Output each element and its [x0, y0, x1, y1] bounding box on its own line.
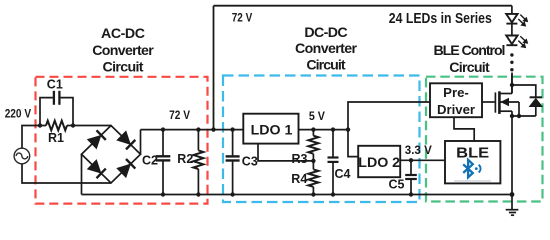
junction dots at R1/C1 [38, 123, 42, 127]
bridge diode D3 (left to bottom) [88, 160, 106, 178]
svg-text:Circuit: Circuit [306, 57, 345, 73]
DC-DC converter block outline (cyan dashed) [223, 76, 420, 203]
wire: pre-driver to BLE [454, 117, 474, 141]
capacitor C3 [226, 130, 240, 195]
AC-DC converter block outline (red dashed) [36, 77, 208, 204]
svg-text:24 LEDs in Series: 24 LEDs in Series [389, 11, 492, 27]
svg-text:R3: R3 [292, 152, 308, 166]
svg-text:C4: C4 [335, 167, 351, 181]
wire: pre-driver gate drive to Q1 [482, 101, 495, 103]
junction dot: 3.3V node at C5 [409, 158, 413, 162]
wire: between LEDs [511, 25, 513, 36]
svg-text:C2: C2 [142, 153, 158, 167]
body diode D5 [512, 85, 542, 116]
svg-text:LDO 1: LDO 1 [251, 122, 293, 138]
wire: top 72V bus [214, 5, 512, 7]
wire: bridge minus corner to ground rail [81, 154, 83, 194]
bridge diode D2 (top to right) [117, 131, 135, 149]
junction dots on ground rail (DC-DC side) [311, 192, 315, 196]
svg-text:72 V: 72 V [169, 108, 191, 122]
wire: 5V rail from LDO1 output [299, 129, 349, 131]
wire: ground rail [82, 194, 513, 196]
svg-text:LDO 2: LDO 2 [358, 155, 400, 171]
svg-text:BLE Control: BLE Control [434, 43, 506, 59]
resistor R1 [46, 121, 67, 131]
bridge diode D4 (bottom to right) [117, 159, 135, 177]
wire: 3.3V rail from LDO2 to BLE [400, 159, 445, 161]
capacitor C5 [405, 160, 417, 194]
svg-text:C5: C5 [389, 177, 405, 191]
wire: 72V riser [213, 6, 215, 130]
svg-text:C3: C3 [242, 154, 258, 168]
wire: LED string feed [511, 6, 513, 14]
junction dot: feedback node between R3 and R4 [311, 159, 315, 163]
svg-text:Converter: Converter [295, 41, 357, 57]
resistor R4 [308, 161, 318, 195]
wire: LED string to Q1 drain [511, 75, 513, 94]
svg-text:R1: R1 [48, 131, 64, 145]
title: DC-DC Converter Circuit [295, 25, 357, 73]
resistor R2 [193, 130, 203, 195]
capacitor C2 [156, 130, 171, 195]
bridge rectifier diamond wires [82, 126, 141, 184]
svg-text:5 V: 5 V [309, 109, 326, 123]
BLE module block U4 [445, 141, 500, 183]
AC source V1 [14, 148, 30, 164]
title: BLE Control Circuit [434, 43, 506, 76]
svg-text:C1: C1 [47, 77, 63, 91]
svg-text:72 V: 72 V [232, 11, 253, 25]
LED D6 [506, 14, 517, 24]
svg-text:Driver: Driver [437, 102, 475, 117]
svg-text:Converter: Converter [92, 43, 154, 59]
junction dot: ground node [510, 192, 515, 197]
LED string continuation dots [510, 53, 513, 56]
title: AC-DC Converter Circuit [92, 26, 154, 75]
wire: 5V branch riser to pre-driver and down to LDO2 input [348, 102, 430, 157]
capacitor C1 [40, 91, 73, 126]
wire: bridge plus corner riser to 72V rail [140, 130, 142, 155]
bridge diode D1 (left to top) [88, 130, 106, 148]
wire: AC source top lead [22, 126, 46, 149]
junction dots on 5V rail [311, 127, 315, 131]
BLE control block outline (green dashed) [426, 77, 543, 202]
svg-text:Circuit: Circuit [449, 60, 490, 76]
wire: R1 to bridge top [67, 125, 111, 127]
ground [506, 195, 519, 216]
svg-text:R4: R4 [291, 172, 307, 186]
junction dots on 72V rail [161, 127, 165, 131]
junction dots on ground rail (AC-DC side) [161, 192, 165, 196]
svg-text:3.3 V: 3.3 V [405, 143, 433, 157]
junction dots at Q1 [510, 83, 514, 87]
LED D6 emission arrows [518, 15, 528, 27]
wire: AC source bottom lead [22, 164, 111, 183]
wire: 72V rail [141, 129, 244, 131]
resistor R3 [308, 130, 318, 161]
svg-text:AC-DC: AC-DC [101, 26, 145, 42]
capacitor C4 [328, 130, 339, 195]
svg-text:BLE: BLE [456, 144, 489, 161]
transistor Q1 (N-MOSFET) [495, 73, 535, 195]
svg-text:220 V: 220 V [5, 106, 32, 120]
LED D7 emission arrows [518, 36, 528, 48]
wire: LDO1 feedback to divider [258, 144, 313, 161]
svg-text:Pre-: Pre- [443, 85, 469, 100]
regulator U1 LDO 1 [243, 114, 298, 144]
regulator U2 LDO 2 [358, 146, 400, 177]
svg-text:DC-DC: DC-DC [304, 25, 347, 41]
svg-text:Circuit: Circuit [103, 59, 144, 75]
bluetooth logo [463, 160, 480, 178]
LED D7 [506, 36, 517, 46]
pre-driver block U3 [430, 83, 482, 117]
svg-text:R2: R2 [177, 152, 193, 166]
